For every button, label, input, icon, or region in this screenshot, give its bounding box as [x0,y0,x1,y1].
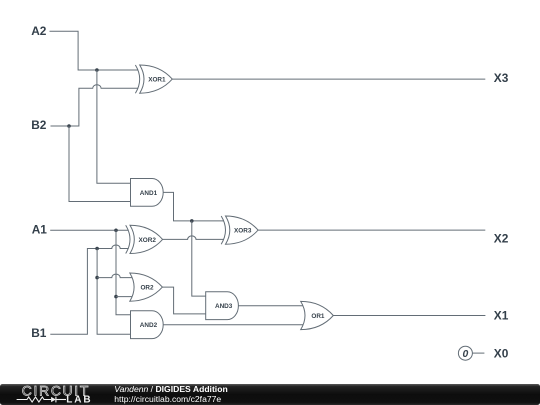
svg-text:A2: A2 [31,24,47,38]
svg-text:XOR1: XOR1 [148,77,166,84]
svg-text:LAB: LAB [66,395,92,405]
wire B1 branch down to AND2 bottom input [97,249,130,335]
footer title text [114,384,228,394]
svg-text:0: 0 [463,349,469,360]
node A1 [32,223,48,237]
junction on A1 wire [114,229,118,233]
node X0 [494,346,509,360]
node X3 [494,71,509,85]
CircuitLab logo CIRCUIT [22,383,90,399]
svg-text:AND3: AND3 [215,303,233,310]
node X1 [494,309,509,323]
wire AND3 output to OR1 top input [238,305,305,307]
wire B2 to XOR1 bottom input (hop over vertical) [51,85,139,126]
footer bar [0,384,540,405]
wire to OR2 top input (hop over vertical) [97,274,134,277]
svg-text:B1: B1 [31,326,47,340]
svg-text:XOR2: XOR2 [138,237,156,244]
xor gate XOR2 [126,225,163,253]
wire A2 branch to AND1 top input [97,70,131,183]
wire A2 to XOR1 top input [50,31,139,70]
svg-text:OR1: OR1 [311,313,325,320]
wire branch to AND3 top input [192,221,206,296]
wire XOR2 output to XOR3 bottom input (hop over vertical) [163,236,224,239]
svg-text:A1: A1 [32,223,48,237]
junction on B1 wire [95,247,99,251]
svg-text:Vandenn / DIGIDES Addition: Vandenn / DIGIDES Addition [114,384,228,394]
CircuitLab logo LAB [66,395,92,405]
node X2 [494,232,509,246]
wire OR1 output to X1 [333,315,485,317]
wire A1 branch down to AND2 top input [116,230,131,314]
or gate OR1 [301,301,334,329]
wire X0 stub [472,352,484,354]
node B2 [31,118,47,132]
and gate AND3 [206,292,239,320]
footer url text [114,394,221,404]
svg-text:X0: X0 [494,346,509,360]
wire AND1 output to XOR3 top input [163,192,224,221]
svg-text:XOR3: XOR3 [234,228,252,235]
wire B1 to XOR2 bottom input (hop over vertical) [50,245,128,334]
svg-text:X2: X2 [494,232,509,246]
junction A1 branch at OR2 bottom input [114,295,118,299]
svg-text:AND1: AND1 [140,190,158,197]
node B1 [31,326,47,340]
wire A1 to XOR2 top input [50,229,128,231]
junction on B2 wire [67,124,71,128]
svg-text:X1: X1 [494,309,509,323]
and gate AND2 [131,311,164,339]
svg-text:http://circuitlab.com/c2fa77e: http://circuitlab.com/c2fa77e [114,394,221,404]
node A2 [31,24,47,38]
wire AND2 output to OR1 bottom input [163,324,305,326]
xor gate XOR1 [135,65,172,93]
wire B2 branch to AND1 bottom input [69,126,131,202]
junction on AND1 output wire [190,219,194,223]
CircuitLab logo resistor-diode squiggle [17,397,66,403]
wire XOR1 output to X3 [172,78,485,80]
junction B1 branch at OR2 top input [95,276,99,280]
or gate OR2 [130,273,163,301]
wire OR2 output to AND3 bottom input [162,287,205,314]
junction on A2 wire [95,68,99,72]
constant 0 source [458,346,472,360]
wire XOR3 output to X2 [258,229,485,231]
wire to OR2 bottom input [116,296,134,298]
svg-text:OR2: OR2 [140,285,154,292]
svg-text:AND2: AND2 [140,322,158,329]
svg-text:X3: X3 [494,71,509,85]
and gate AND1 [131,179,164,207]
svg-text:B2: B2 [31,118,47,132]
xor gate XOR3 [221,216,258,244]
